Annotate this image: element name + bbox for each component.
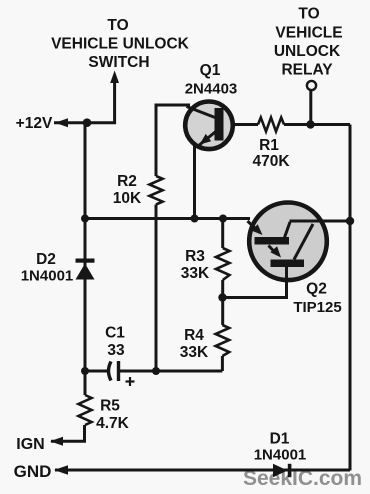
wire: R3 bottom to R4 top: [221, 280, 224, 325]
node GND with left arrow: [14, 462, 68, 481]
wire: Q2 emitter down-left to R3/R4 node: [223, 265, 287, 298]
junction dot R3 top/bus: [219, 215, 227, 223]
svg-text:10K: 10K: [113, 190, 142, 207]
svg-text:R5: R5: [100, 398, 120, 415]
junction dot left rail/C1: [81, 367, 89, 375]
wire: GND line: [55, 469, 350, 472]
svg-text:SWITCH: SWITCH: [88, 54, 149, 71]
svg-text:VEHICLE UNLOCK: VEHICLE UNLOCK: [51, 36, 190, 53]
svg-text:470K: 470K: [252, 153, 290, 170]
svg-text:TO: TO: [298, 6, 319, 23]
svg-text:Q1: Q1: [200, 62, 221, 79]
arrow bar1 to bar2: [269, 246, 277, 254]
junction dot left rail/bus: [81, 215, 89, 223]
resistor R2 10K: [113, 173, 163, 207]
resistor R3 33K: [181, 248, 230, 282]
transistor Q1 2N4403: [185, 62, 238, 149]
node label: TO VEHICLE UNLOCK RELAY: [274, 6, 343, 79]
svg-text:C1: C1: [105, 325, 125, 342]
svg-text:RELAY: RELAY: [281, 62, 333, 79]
wire: C1 line from left rail to R4 bottom: [85, 370, 108, 373]
junction dot R3/R4/Q2 emitter: [218, 293, 226, 301]
wire: R4 bottom to C1 line: [221, 356, 224, 371]
svg-text:1N4001: 1N4001: [21, 268, 74, 285]
wire: arrow up to vehicle unlock switch: [54, 71, 119, 123]
diode D2 1N4001: [21, 251, 95, 285]
junction dot R1/relay: [306, 120, 314, 128]
wire: Q1 collector to R1: [232, 123, 258, 126]
capacitor C1 33: [105, 325, 134, 387]
svg-text:GND: GND: [14, 462, 52, 481]
svg-text:R2: R2: [117, 173, 137, 190]
node label: TO VEHICLE UNLOCK SWITCH: [51, 17, 190, 71]
wire: R2 column from Q1 base corner down to C1 line: [156, 105, 190, 176]
svg-text:VEHICLE: VEHICLE: [275, 24, 342, 41]
svg-text:UNLOCK: UNLOCK: [274, 43, 341, 60]
svg-text:4.7K: 4.7K: [96, 415, 130, 432]
node +12V with left arrow: [16, 115, 68, 132]
svg-text:D2: D2: [36, 251, 56, 268]
svg-text:2N4403: 2N4403: [185, 81, 238, 98]
svg-text:+12V: +12V: [16, 115, 53, 132]
svg-text:R4: R4: [184, 327, 204, 344]
wire: right rail: [349, 125, 352, 471]
wire: mid bus (R2 bottom / Q1 emitter / R3 top / Q2 base): [85, 217, 250, 220]
svg-text:1N4001: 1N4001: [254, 447, 307, 464]
junction dot right rail / Q2 collector: [346, 217, 354, 225]
wire: R5 bottom to IGN: [51, 425, 85, 441]
resistor R5 4.7K: [78, 395, 129, 432]
svg-text:D1: D1: [270, 431, 290, 448]
base bar 2: [271, 260, 305, 268]
svg-text:IGN: IGN: [16, 436, 44, 453]
wire: R2 bottom through bus down to C1 node: [155, 205, 158, 372]
resistor R1 470K: [252, 118, 290, 171]
collector line inside: [290, 220, 351, 223]
junction dot +12V: [83, 118, 92, 127]
junction dot Q1 emitter/bus: [191, 215, 199, 223]
svg-text:TO: TO: [107, 17, 128, 34]
base bar 1: [255, 237, 290, 245]
svg-text:33K: 33K: [181, 265, 210, 282]
terminal circle to relay: [307, 81, 316, 90]
svg-text:R3: R3: [185, 248, 205, 265]
wire: left rail: [84, 123, 87, 395]
resistor R4 33K: [180, 325, 229, 361]
wire: relay terminal drop: [309, 90, 312, 125]
wire: R1 right to right rail: [284, 123, 350, 126]
transistor Q2 TIP125: [248, 203, 351, 317]
junction dot R2 column/C1 line: [152, 367, 160, 375]
svg-text:R1: R1: [259, 137, 279, 154]
svg-text:33K: 33K: [180, 344, 209, 361]
arrow into bar1: [248, 221, 259, 231]
wire: Q1 emitter column: [193, 145, 196, 219]
svg-text:33: 33: [107, 342, 125, 359]
diode D1 1N4001: [254, 431, 307, 478]
svg-text:TIP125: TIP125: [293, 299, 341, 316]
node IGN with left arrow: [16, 436, 63, 453]
svg-text:Q2: Q2: [306, 281, 327, 298]
wire: R3/R4 column: [221, 219, 224, 249]
